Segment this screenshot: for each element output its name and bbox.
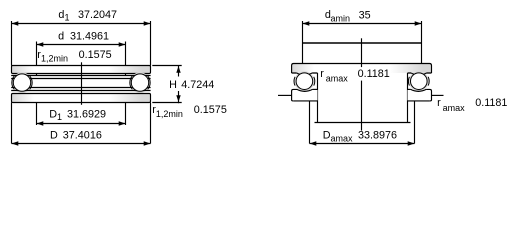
dimension D1 extension line left	[36, 103, 38, 126]
svg-text:1: 1	[65, 12, 70, 22]
dimension line d	[37, 44, 126, 46]
ball right	[131, 74, 148, 91]
groove dip over right ball	[411, 73, 426, 75]
shaft washer slab fill	[292, 64, 432, 74]
svg-text:D: D	[50, 130, 58, 142]
svg-text:37.4016: 37.4016	[63, 130, 102, 142]
groove arc right of right ball	[148, 76, 150, 89]
svg-text:0.1575: 0.1575	[79, 49, 112, 61]
svg-text:D: D	[323, 130, 331, 142]
groove shading right ball	[130, 72, 151, 93]
raceway groove rim line lower-near	[11, 90, 150, 92]
dimension Damax extension line right	[414, 101, 416, 144]
groove shading right ball right drawing	[409, 71, 429, 91]
dimension d extension line right	[125, 42, 127, 76]
svg-text:amin: amin	[331, 13, 351, 23]
groove shading left ball right drawing	[294, 71, 314, 91]
svg-text:0.1181: 0.1181	[358, 68, 390, 80]
H extension line bottom	[152, 102, 181, 104]
dimension H arrow up	[178, 66, 180, 77]
svg-text:amax: amax	[331, 134, 354, 144]
groove arc left of right ball	[130, 76, 132, 89]
svg-text:d: d	[58, 9, 64, 21]
groove dip over left ball	[297, 73, 312, 75]
svg-text:D: D	[49, 108, 57, 120]
svg-text:0.1181: 0.1181	[475, 97, 507, 109]
dimension d1 extension line left	[11, 21, 13, 66]
bearing shaft washer (top)	[12, 66, 151, 74]
svg-text:31.4961: 31.4961	[70, 31, 109, 43]
dimension d extension line left	[36, 42, 38, 76]
raceway groove rim line upper-near	[11, 75, 150, 77]
dimension line damin	[303, 23, 422, 25]
slab bottom edge left-inner segment	[312, 72, 317, 74]
svg-text:0.1575: 0.1575	[194, 104, 227, 116]
ball left	[13, 74, 30, 91]
ball right (right drawing)	[411, 73, 428, 90]
dimension H arrow down	[178, 91, 180, 103]
shoulder stem left edge	[317, 73, 319, 123]
center line left drawing	[81, 62, 83, 105]
slab bottom edge right-inner segment	[408, 72, 412, 74]
dimension line D1	[37, 123, 126, 125]
shaft washer slab	[292, 64, 432, 74]
housing washer piece right	[408, 89, 432, 101]
svg-text:H: H	[169, 79, 177, 91]
svg-text:31.6929: 31.6929	[67, 109, 106, 121]
dimension line D	[12, 143, 151, 145]
dimension line Damax	[310, 143, 415, 145]
ball left (right drawing)	[296, 73, 313, 90]
svg-text:r: r	[320, 68, 324, 80]
dimension damin extension + shaft side right	[421, 21, 423, 64]
svg-text:4.7244: 4.7244	[181, 79, 214, 91]
svg-text:37.2047: 37.2047	[78, 9, 117, 21]
dimension D extension line right	[150, 103, 152, 144]
svg-text:d: d	[58, 31, 64, 43]
svg-text:amax: amax	[326, 73, 349, 83]
groove arc left of right ball (right drawing)	[407, 77, 410, 86]
housing washer piece left	[292, 89, 318, 101]
svg-text:r: r	[437, 97, 441, 109]
r amax leader stub left	[278, 94, 292, 96]
groove arc left of left ball (right drawing)	[293, 77, 296, 86]
dimension D1 extension line right	[125, 103, 127, 126]
shoulder stem bottom edge	[315, 122, 411, 124]
center line right drawing upper	[361, 38, 363, 67]
raceway groove rim line lower-far	[11, 87, 150, 89]
shoulder stem right edge	[407, 73, 409, 123]
svg-text:1,2min: 1,2min	[156, 109, 183, 119]
groove shading left ball	[12, 72, 33, 93]
dimension D extension line left	[11, 103, 13, 144]
dimension damin extension + shaft side left	[302, 21, 304, 64]
H extension line top	[152, 65, 181, 67]
r amax leader stub right	[432, 94, 444, 96]
svg-text:35: 35	[359, 9, 371, 21]
dimension line d1	[12, 23, 151, 25]
svg-text:1: 1	[57, 112, 62, 122]
groove arc right of right ball (right drawing)	[427, 77, 430, 86]
dimension Damax extension line left	[309, 101, 311, 144]
groove arc right of left ball (right drawing)	[313, 77, 316, 86]
svg-text:1,2min: 1,2min	[41, 54, 68, 64]
slab bottom edge left segment	[292, 72, 297, 74]
groove arc right of left ball	[30, 76, 32, 89]
raceway groove rim line upper-far	[11, 78, 150, 80]
center line right drawing lower	[361, 81, 363, 131]
bearing housing washer (bottom)	[12, 94, 151, 103]
svg-text:33.8976: 33.8976	[358, 130, 397, 142]
slab bottom edge right segment	[427, 72, 432, 74]
shaft abutment top edge	[303, 42, 422, 44]
groove arc left of left ball	[12, 76, 14, 89]
svg-text:amax: amax	[443, 103, 466, 113]
dimension d1 extension line right	[150, 21, 152, 66]
